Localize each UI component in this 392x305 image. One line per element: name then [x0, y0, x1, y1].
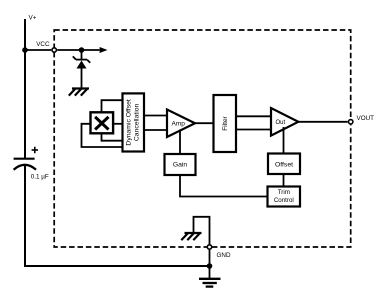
svg-text:Cancellation: Cancellation — [134, 103, 141, 141]
svg-text:VOUT: VOUT — [357, 115, 375, 122]
svg-text:Trim: Trim — [278, 189, 290, 196]
svg-text:Amp: Amp — [172, 120, 186, 127]
svg-text:V+: V+ — [29, 15, 37, 22]
svg-text:VCC: VCC — [36, 41, 50, 48]
svg-text:Offset: Offset — [275, 161, 293, 168]
svg-text:Dynamic Offset: Dynamic Offset — [125, 99, 132, 145]
svg-text:GND: GND — [217, 252, 231, 259]
svg-text:0.1 µF: 0.1 µF — [31, 174, 49, 181]
svg-text:Gain: Gain — [173, 161, 188, 168]
svg-text:Filter: Filter — [222, 115, 229, 130]
svg-text:Out: Out — [276, 120, 286, 126]
svg-text:Control: Control — [274, 197, 294, 204]
